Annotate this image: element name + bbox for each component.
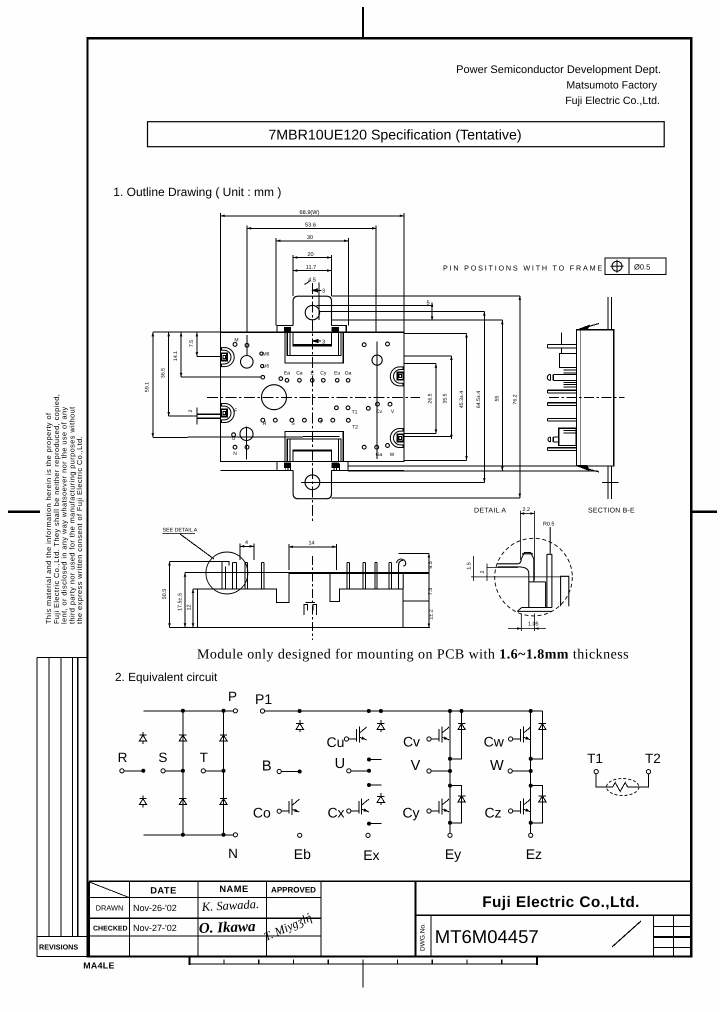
svg-text:Ø0.5: Ø0.5 (634, 263, 650, 272)
wire W main line (530, 711, 532, 833)
junction V lower collector (449, 784, 452, 787)
svg-text:Fuji Electric Co.,Ltd.: Fuji Electric Co.,Ltd. (482, 894, 640, 911)
dim 17.5 (185, 572, 289, 574)
svg-text:SECTION B-E: SECTION B-E (588, 508, 635, 515)
right blade (547, 554, 552, 607)
svg-text:T1: T1 (587, 751, 603, 766)
wire converter N rail (143, 834, 233, 836)
svg-text:Eb: Eb (294, 846, 311, 862)
svg-text:U6: U6 (263, 364, 270, 370)
svg-text:1±.2: 1±.2 (429, 609, 435, 619)
svg-text:the express written consent of: the express written consent of Fuji Elec… (75, 436, 84, 624)
svg-text:APPROVED: APPROVED (271, 886, 316, 895)
diode D3 (T upper) (220, 732, 227, 744)
svg-text:Cu: Cu (327, 734, 345, 750)
node P terminal (233, 709, 237, 713)
svg-text:Cx: Cx (327, 805, 344, 821)
svg-text:MT6M04457: MT6M04457 (435, 926, 539, 947)
svg-text:3: 3 (322, 339, 325, 345)
upper-left pin column line (246, 335, 248, 355)
pin row 3 (548, 390, 577, 393)
wire S to bridge (165, 770, 183, 772)
svg-text:26.5: 26.5 (427, 393, 433, 403)
svg-text:1.05: 1.05 (528, 622, 539, 628)
svg-text:SEE DETAIL A: SEE DETAIL A (163, 528, 198, 534)
diode D4 (R lower) (139, 796, 146, 808)
svg-text:2. Equivalent circuit: 2. Equivalent circuit (115, 670, 218, 684)
svg-text:Cv: Cv (376, 409, 383, 415)
svg-text:T2: T2 (645, 751, 661, 766)
stacked plates 1 (564, 370, 577, 373)
svg-text:11.7: 11.7 (306, 265, 316, 271)
wire T to bridge (205, 770, 223, 772)
svg-text:DWG.No.: DWG.No. (420, 923, 427, 951)
svg-text:R: R (118, 750, 128, 765)
module body outline (221, 332, 405, 461)
transistor brake IGBT (gate CB) (277, 809, 281, 813)
dim 11.7 (293, 270, 331, 272)
corner diagonal (89, 882, 129, 898)
horizontal centerline (207, 396, 420, 398)
svg-text:Eu: Eu (334, 371, 340, 377)
svg-text:Nov-27-'02: Nov-27-'02 (133, 923, 177, 933)
pin 2 (233, 563, 237, 589)
transistor V lower IGBT (gate Cy) (427, 809, 431, 813)
collar hatch ticks (286, 463, 340, 470)
svg-text:Nov-26-'02: Nov-26-'02 (133, 903, 177, 913)
left dims: extension from body top (153, 331, 221, 333)
junction U diode top (379, 710, 382, 713)
junction T node (222, 769, 225, 772)
pin row 6 (548, 448, 577, 451)
svg-text:E: E (311, 371, 315, 377)
svg-text:64.5±.4: 64.5±.4 (476, 391, 482, 408)
svg-text:Ga: Ga (345, 371, 352, 377)
DWG.No. cell (430, 915, 432, 956)
tiny pin labels in top view (232, 338, 395, 459)
control pin circles row (261, 375, 265, 379)
front dim arrowheads (168, 545, 430, 628)
junction V lower emitter (449, 821, 452, 824)
pin 9 with hook (397, 559, 406, 589)
transistor W upper IGBT (gate Cw) (509, 737, 513, 741)
wire B stub (281, 771, 299, 773)
junction U main top (367, 710, 370, 713)
transistor U upper IGBT (gate Cu) (344, 737, 348, 741)
svg-text:30: 30 (307, 235, 313, 241)
base plate (517, 608, 552, 612)
dim 30 (276, 240, 348, 242)
svg-text:T. Miyɡʒlή: T. Miyɡʒlή (262, 910, 314, 944)
svg-text:53.6: 53.6 (305, 223, 316, 229)
handwritten signatures (199, 897, 314, 944)
svg-text:N: N (228, 846, 238, 861)
junction V main top (449, 710, 452, 713)
svg-text:55: 55 (495, 396, 501, 402)
top center fold mark (362, 7, 364, 38)
dim 68.9(W) (221, 215, 405, 217)
corner pad left-middle clip (221, 404, 234, 423)
wire T1 lead (596, 774, 606, 787)
svg-text:Cw: Cw (484, 734, 505, 750)
svg-text:7MBR10UE120 Specification (Te: 7MBR10UE120 Specification (Tentative) (268, 128, 521, 144)
right pin column line (376, 342, 378, 460)
svg-text:Power Semiconductor Developmen: Power Semiconductor Development Dept. (456, 64, 661, 76)
wire W upper diode branch (531, 711, 543, 759)
sheet border frame (88, 38, 692, 956)
junction U lower emitter + stub wire (368, 822, 371, 825)
SEE DETAIL A leader (180, 534, 214, 559)
dim 4 (pin pitch) (240, 545, 254, 547)
diode DW- (W lower freewheel) (539, 793, 546, 805)
junction S top (181, 709, 184, 712)
svg-text:W: W (390, 452, 395, 458)
vertical centerline (311, 283, 313, 523)
svg-text:T: T (319, 420, 322, 426)
svg-text:Ey: Ey (445, 846, 461, 862)
right vertical dim lines (431, 303, 433, 321)
left dims 1.5 / 2 (471, 556, 561, 581)
center vertical dashed axis (312, 556, 314, 640)
dim 36.5 (168, 332, 170, 416)
terminal Ex (366, 833, 370, 837)
bottom mounting tab (293, 470, 331, 498)
pin 3 (245, 563, 248, 589)
dim 7.5 (196, 332, 198, 356)
confidentiality note (rotated) (44, 394, 84, 624)
table outline (89, 880, 691, 882)
svg-text:7.5: 7.5 (428, 588, 434, 596)
wire V upper diode branch (450, 711, 462, 759)
R0.5 leader (549, 527, 551, 554)
inner body line (580, 330, 582, 466)
dim 1.05 bottom (508, 614, 546, 632)
svg-text:2: 2 (480, 571, 486, 574)
dim 4.5 leader (305, 281, 311, 285)
svg-text:Fuji Electric Co.,Ltd.: Fuji Electric Co.,Ltd. (565, 95, 660, 107)
diode DW+ (W upper freewheel) (539, 721, 546, 733)
svg-text:4: 4 (245, 540, 248, 546)
bottom slot nested rects (285, 432, 343, 462)
svg-text:17.5±.5: 17.5±.5 (178, 593, 184, 611)
terminal V (427, 769, 431, 773)
svg-text:DRAWN: DRAWN (96, 904, 124, 913)
svg-text:36.5: 36.5 (161, 368, 167, 378)
junction W node (529, 770, 532, 773)
diode D1 (R upper) (139, 732, 146, 744)
resistor TH1 thermistor body (607, 779, 639, 796)
terminal W (508, 769, 512, 773)
bottom tab crosshair (602, 481, 619, 483)
pin block upper (559, 354, 576, 368)
pin cross-section with hook foot (498, 553, 546, 608)
terminal Ey (448, 833, 452, 837)
svg-text:B: B (262, 759, 272, 775)
svg-text:7.5: 7.5 (189, 340, 195, 347)
top tab pin (608, 297, 612, 330)
corner pad right-middle clip (390, 367, 403, 386)
SEE DETAIL A text (163, 528, 198, 534)
top slot nested rects (285, 332, 343, 363)
svg-text:Cv: Cv (403, 734, 420, 750)
junction T bottom (222, 833, 225, 836)
diode DB (brake) (296, 720, 303, 732)
terminal T2 (646, 770, 650, 774)
small pins top edge (233, 343, 237, 347)
wire P1 bus (265, 710, 543, 712)
front view dimensions (170, 544, 429, 628)
junction U node (368, 769, 371, 772)
wire T column (223, 711, 225, 835)
svg-text:5: 5 (426, 301, 429, 307)
pin position tolerance note (443, 258, 666, 275)
pin row 5 (548, 418, 577, 421)
wire converter P rail (143, 710, 233, 712)
junction S node (181, 769, 184, 772)
pin row 4 (548, 403, 577, 406)
bottom tab mounting hole (305, 475, 320, 490)
diode D5 (S lower) (179, 796, 186, 808)
dim 53.6 (247, 227, 376, 229)
svg-text:R: R (263, 421, 267, 427)
F terminal stubs on left edge (197, 413, 221, 415)
upper housing wall (561, 333, 563, 354)
svg-text:T1: T1 (352, 410, 358, 416)
svg-text:O. Ikawa: O. Ikawa (199, 919, 257, 937)
terminal T (201, 769, 205, 773)
junction R node (142, 769, 145, 772)
junction W lower emitter (529, 821, 532, 824)
svg-text:F: F (234, 408, 237, 414)
svg-text:14: 14 (309, 541, 315, 547)
svg-text:Ea: Ea (284, 371, 290, 377)
svg-text:Module only designed for mount: Module only designed for mounting on PCB… (197, 648, 629, 663)
big hole lower-left (240, 428, 253, 441)
svg-text:NAME: NAME (219, 884, 248, 894)
top mounting collar (277, 326, 346, 333)
svg-text:N: N (233, 451, 237, 457)
right fold mark (691, 511, 717, 513)
terminal Ez (529, 833, 533, 837)
junction W lower collector (529, 784, 532, 787)
right dim stack (399, 552, 429, 554)
svg-text:V: V (411, 758, 421, 774)
junction brake diode top (298, 710, 301, 713)
node N terminal (233, 833, 237, 837)
side centerline (549, 396, 625, 398)
diode D2 (S upper) (179, 732, 186, 744)
company box divider (416, 914, 691, 916)
detail dim arrowheads (517, 512, 539, 630)
top clamp black marks (284, 327, 290, 331)
N pins bottom (233, 445, 237, 449)
svg-text:9.5: 9.5 (428, 561, 434, 569)
svg-text:Ga: Ga (376, 452, 383, 458)
svg-text:Cy: Cy (402, 805, 419, 821)
title block texts (93, 884, 640, 951)
pin 4 (261, 563, 264, 589)
transistor U lower IGBT (gate Cx) (347, 809, 351, 813)
terminal P1 (260, 709, 264, 713)
right dim extension lines (316, 305, 432, 307)
svg-text:Ca: Ca (296, 371, 303, 377)
section arrow top (577, 326, 589, 331)
section arrow bottom (577, 466, 589, 471)
wire V lower diode branch (450, 786, 462, 823)
top mounting tab (293, 296, 331, 325)
bottom ruler scale bar (189, 958, 537, 988)
junction W upper emitter (529, 757, 532, 760)
svg-text:M: M (234, 338, 238, 344)
dim 12 (193, 588, 198, 590)
svg-text:Cz: Cz (484, 805, 501, 821)
stacked plates 3 (564, 431, 577, 434)
dim 20 (293, 257, 331, 259)
dim 50.5 (170, 560, 226, 562)
right pin hole (372, 355, 382, 365)
wire U stub (351, 770, 369, 772)
terminal B (277, 769, 281, 773)
top tab mounting hole (305, 305, 319, 319)
svg-text:Cy: Cy (320, 371, 327, 377)
terminal Eb (298, 833, 302, 837)
bottom tab hole crosshair (301, 481, 324, 483)
detail circle dashed (495, 538, 573, 616)
svg-text:W: W (490, 758, 504, 774)
svg-text:4.5: 4.5 (308, 278, 316, 284)
wire W lower diode branch (531, 786, 543, 823)
wire V main line (449, 711, 451, 833)
svg-text:1.5: 1.5 (467, 562, 473, 570)
corner pad bottom-right clip (390, 429, 403, 448)
svg-text:P: P (228, 689, 237, 704)
wire R to bridge (124, 770, 143, 772)
junction T top (222, 709, 225, 712)
svg-text:S: S (158, 750, 167, 765)
svg-text:12: 12 (187, 605, 193, 611)
left fold mark (8, 511, 40, 513)
dim 14.1 (180, 332, 182, 377)
svg-text:Co: Co (253, 805, 271, 821)
svg-text:MA4LE: MA4LE (83, 961, 114, 971)
pin 8 (389, 563, 391, 589)
svg-text:45.3±.4: 45.3±.4 (459, 391, 465, 408)
sheet slash (612, 921, 641, 947)
aux small holes (260, 352, 263, 355)
svg-text:CHECKED: CHECKED (93, 926, 128, 933)
R S T power pins (261, 418, 265, 422)
shoulder reference line (thick) (289, 572, 429, 574)
rev grid (652, 915, 654, 956)
side body outline (577, 330, 614, 466)
terminal R (120, 769, 124, 773)
junction V node (449, 770, 452, 773)
terminal U (347, 769, 351, 773)
svg-text:DATE: DATE (150, 886, 177, 896)
pin 1 with hook (222, 562, 229, 589)
transistor W lower IGBT (gate Cz) (509, 809, 513, 813)
bulb pin upper (550, 374, 576, 380)
diode DV+ (V upper freewheel) (458, 721, 465, 733)
pin 5 (347, 563, 349, 589)
svg-text:76.2: 76.2 (512, 394, 518, 404)
bottom tab pin (608, 466, 612, 499)
svg-text:1. Outline Drawing ( Unit : mm: 1. Outline Drawing ( Unit : mm ) (113, 185, 281, 199)
bottom clamp black marks (284, 463, 290, 467)
svg-text:PIN POSITIONS WITH TO FRAME: PIN POSITIONS WITH TO FRAME (443, 264, 604, 273)
junction S bottom (181, 833, 184, 836)
dim 59.1 (152, 332, 154, 437)
wire V stub (431, 770, 450, 772)
junction V upper emitter (449, 757, 452, 760)
svg-text:68.9(W): 68.9(W) (300, 209, 320, 216)
svg-text:Ex: Ex (363, 847, 379, 863)
top dim labels (144, 209, 518, 412)
svg-text:Ez: Ez (526, 846, 542, 862)
terminal S (161, 769, 165, 773)
wire T2 lead (640, 774, 649, 787)
svg-text:35.5: 35.5 (443, 393, 449, 403)
svg-text:V: V (391, 409, 395, 415)
svg-text:S: S (291, 421, 295, 427)
svg-text:U: U (335, 756, 345, 772)
bulb pin lower (550, 437, 558, 442)
thermistor pins T1 T2 (335, 406, 339, 410)
junction W main top (529, 710, 532, 713)
svg-text:3: 3 (322, 288, 325, 294)
corner pad top-left clip (221, 348, 234, 367)
V W output pins (366, 406, 370, 410)
column lines (129, 881, 131, 956)
junction U lower collector + stub wire (368, 784, 371, 787)
PCB seating plane line (170, 627, 431, 629)
right step (561, 576, 569, 606)
transistor V upper IGBT (gate Cv) (427, 737, 431, 741)
diode DU- (U lower freewheel) (377, 793, 384, 805)
wire W stub (512, 770, 530, 772)
bottom right pins (362, 445, 366, 449)
case outline (198, 573, 404, 628)
svg-text:T: T (200, 750, 208, 765)
diode DV- (V lower freewheel) (458, 793, 465, 805)
dim 2.2 (520, 511, 535, 580)
center tab clip detail (304, 603, 317, 616)
row lines (89, 897, 321, 899)
svg-text:DETAIL A: DETAIL A (474, 508, 506, 515)
wire S column (182, 711, 184, 835)
junction V diode top (460, 710, 463, 713)
stacked plates 2 (564, 382, 577, 387)
title box (148, 122, 665, 147)
svg-text:59.1: 59.1 (144, 382, 150, 392)
svg-text:14.1: 14.1 (173, 351, 179, 361)
dimension arrowheads (152, 215, 522, 498)
junction B node (298, 770, 301, 773)
big hole upper-left (241, 356, 254, 369)
svg-text:50.5: 50.5 (162, 589, 168, 600)
svg-text:REVISIONS: REVISIONS (39, 943, 78, 952)
dim 3 top (313, 289, 322, 291)
svg-text:2: 2 (188, 409, 194, 412)
terminal T1 (594, 770, 598, 774)
diode DU+ (U upper freewheel) (377, 720, 384, 732)
dim 3 bottom (in slot) (313, 340, 321, 342)
pin 6 (363, 563, 366, 589)
svg-text:20: 20 (307, 252, 313, 258)
svg-text:P1: P1 (255, 691, 272, 707)
lower-left pin column line (246, 427, 248, 460)
junction U upper emitter + stub wire (368, 758, 371, 761)
